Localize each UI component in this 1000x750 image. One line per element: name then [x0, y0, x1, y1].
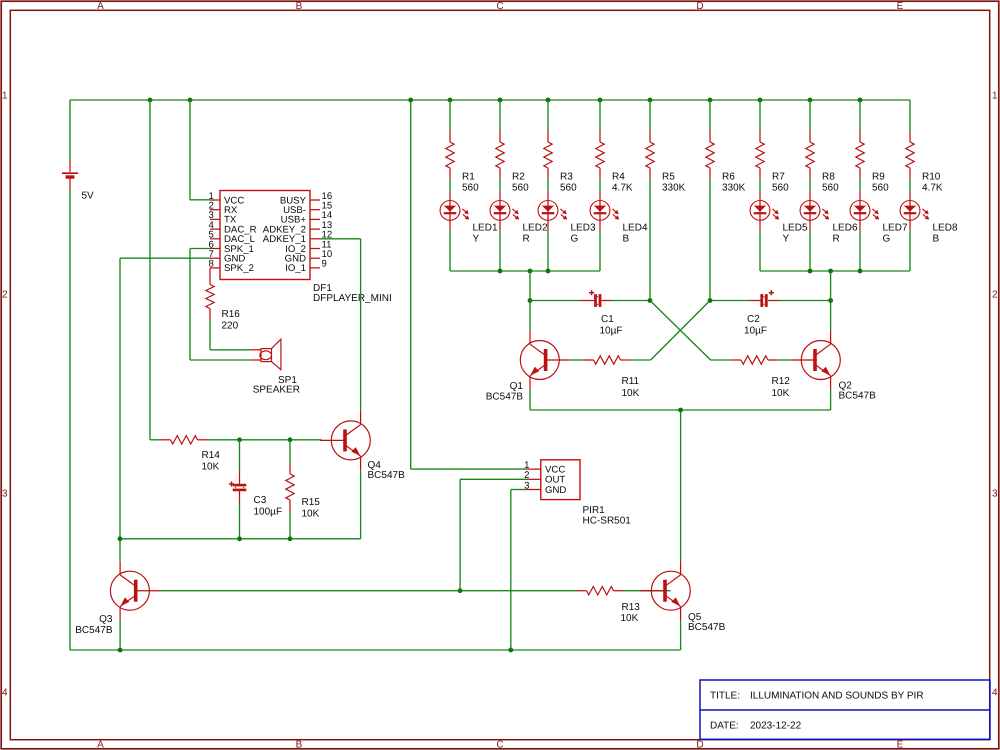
wire C3 top	[239, 440, 241, 471]
wire C2 node to Q2 collector	[830, 301, 832, 331]
resistor R4 4.7K	[599, 100, 601, 131]
svg-text:BC547B: BC547B	[486, 392, 524, 403]
wire LED5 cathode	[759, 230, 761, 271]
pin 4 DAC_R of DF1	[210, 228, 220, 230]
wire R8 to LED6	[809, 179, 811, 192]
wire multivibrator emitter rail	[530, 409, 831, 411]
wire R1 to LED1	[449, 179, 451, 192]
junction VCC bus / DF1 VCC	[188, 98, 193, 103]
junction VCC bus / PIR feed	[408, 98, 413, 103]
wire R6 to C2 node	[709, 179, 711, 301]
wire LED8 cathode	[909, 230, 911, 271]
svg-text:GND: GND	[545, 485, 566, 496]
svg-text:C1: C1	[601, 314, 614, 325]
svg-text:10K: 10K	[302, 509, 320, 520]
junction node C1 / R5 / cross wire	[648, 298, 653, 303]
transistor Q5 BC547B	[640, 590, 665, 592]
title block	[700, 680, 990, 739]
resistor R6 330K	[709, 100, 711, 131]
svg-text:1: 1	[992, 91, 998, 102]
svg-text:1: 1	[2, 91, 8, 102]
svg-text:A: A	[97, 739, 104, 750]
svg-text:R: R	[523, 234, 530, 245]
svg-text:R10: R10	[922, 172, 941, 183]
svg-text:10K: 10K	[202, 462, 220, 473]
junction cathode bus / LED7	[858, 269, 863, 274]
svg-text:SPK_2: SPK_2	[224, 263, 254, 274]
svg-text:560: 560	[512, 183, 529, 194]
svg-text:Y: Y	[783, 234, 790, 245]
svg-text:C: C	[496, 1, 503, 12]
svg-text:10K: 10K	[621, 613, 639, 624]
svg-text:BC547B: BC547B	[368, 470, 406, 481]
junction cathode bus / Q1 collector	[528, 269, 533, 274]
wire R15 top	[289, 440, 291, 463]
wire R2 to LED2	[499, 179, 501, 192]
svg-text:4: 4	[2, 688, 8, 699]
wire R11 to Q1 base	[571, 359, 583, 361]
wire LED2 cathode	[499, 230, 501, 271]
junction VCC bus / R9	[858, 98, 863, 103]
svg-text:LED1: LED1	[473, 223, 498, 234]
wire LED1-4 cathode bus	[450, 270, 600, 272]
battery BT 5V	[69, 161, 71, 172]
svg-text:R13: R13	[622, 602, 641, 613]
pin 9 IO_1 of DF1	[310, 267, 320, 269]
junction base rail / PIR OUT	[458, 588, 463, 593]
svg-text:330K: 330K	[722, 183, 746, 194]
pin 3 GND of PIR1	[526, 489, 541, 491]
wire R4 to LED4	[599, 179, 601, 192]
wire Q5 emitter to GND rail	[680, 620, 682, 650]
junction mid rail / R15	[288, 536, 293, 541]
wire Q4 emitter to mid rail	[360, 470, 362, 539]
transistor Q3 BC547B	[136, 590, 161, 592]
svg-text:LED6: LED6	[833, 223, 858, 234]
svg-text:A: A	[97, 1, 104, 12]
junction VCC bus / R7	[758, 98, 763, 103]
svg-text:R15: R15	[302, 497, 321, 508]
svg-text:3: 3	[2, 489, 8, 500]
resistor R9 560	[859, 100, 861, 131]
svg-text:LED2: LED2	[523, 223, 548, 234]
resistor R5 330K	[649, 100, 651, 131]
wire R16 to speaker	[209, 320, 211, 350]
svg-text:G: G	[883, 234, 891, 245]
svg-text:560: 560	[772, 183, 789, 194]
svg-text:2: 2	[992, 290, 998, 301]
svg-text:10K: 10K	[622, 388, 640, 399]
wire R12 to Q2 base	[779, 359, 791, 361]
junction VCC bus / R2	[498, 98, 503, 103]
wire C3 bottom	[239, 503, 241, 539]
wire PIR GND	[511, 489, 526, 491]
LED LED8 B	[909, 191, 911, 200]
pin 5 DAC_L of DF1	[210, 238, 220, 240]
transistor Q1 BC547B	[546, 359, 571, 361]
svg-text:HC-SR501: HC-SR501	[583, 515, 632, 526]
svg-text:220: 220	[222, 321, 239, 332]
pin 7 GND of DF1	[210, 257, 220, 259]
svg-text:10µF: 10µF	[600, 326, 623, 337]
sensor box PIR1 HC-SR501	[541, 460, 580, 500]
svg-text:ILLUMINATION AND SOUNDS BY PIR: ILLUMINATION AND SOUNDS BY PIR	[750, 691, 924, 702]
pin 6 SPK_1 of DF1	[210, 248, 220, 250]
pin 16 BUSY of DF1	[310, 199, 320, 201]
wire cross-couple C2 node to R11	[651, 301, 710, 361]
svg-text:R1: R1	[462, 172, 475, 183]
svg-text:C2: C2	[747, 314, 760, 325]
svg-text:8: 8	[209, 259, 214, 270]
resistor R16 220	[209, 268, 211, 285]
svg-text:9: 9	[322, 259, 327, 270]
wire R7 to LED5	[759, 179, 761, 192]
svg-text:LED4: LED4	[623, 223, 648, 234]
junction GND rail / PIR GND	[508, 648, 513, 653]
pin 8 SPK_2 of DF1	[210, 267, 220, 269]
svg-text:330K: 330K	[662, 183, 686, 194]
svg-text:D: D	[696, 1, 703, 12]
svg-text:R16: R16	[222, 309, 241, 320]
svg-text:B: B	[623, 234, 630, 245]
wire VCC top bus	[70, 99, 910, 101]
pin 12 ADKEY_1 of DF1	[310, 238, 320, 240]
pin 3 TX of DF1	[210, 218, 220, 220]
wire LED3 cathode	[547, 230, 549, 271]
transistor Q4 BC547B	[320, 439, 345, 441]
svg-text:B: B	[933, 234, 940, 245]
svg-text:R9: R9	[872, 172, 885, 183]
pin 15 USB- of DF1	[310, 209, 320, 211]
svg-text:100µF: 100µF	[254, 507, 283, 518]
LED LED1 Y	[449, 191, 451, 200]
svg-text:C3: C3	[254, 495, 267, 506]
wire R10 to LED8	[909, 179, 911, 192]
wire DF1 GND to ground net	[120, 257, 210, 259]
junction node C2 / R6 / cross wire	[708, 298, 713, 303]
wire LED4 cathode	[599, 230, 601, 271]
wire R15 bottom	[289, 511, 291, 539]
svg-text:R11: R11	[622, 376, 640, 387]
svg-text:SPEAKER: SPEAKER	[253, 385, 300, 396]
wire Q3 emitter to GND rail	[119, 620, 121, 650]
junction cathode bus / Q2 collector	[828, 269, 833, 274]
LED LED4 B	[599, 191, 601, 200]
IC U-box DF1 DFPLAYER_MINI	[220, 191, 310, 280]
junction node Q1 collector / C1	[528, 298, 533, 303]
resistor R14 10K	[150, 439, 160, 441]
junction GND rail / Q3 emitter	[118, 648, 123, 653]
wire R3 to LED3	[547, 179, 549, 192]
wire R14 to Q4 base	[208, 439, 322, 441]
LED LED7 G	[859, 191, 861, 200]
svg-text:5V: 5V	[82, 191, 95, 202]
junction mid rail / C3	[237, 536, 242, 541]
svg-text:Q3: Q3	[99, 614, 113, 625]
wire VCC to DF1 pin 1	[189, 100, 191, 200]
wire mid ground rail	[120, 538, 361, 540]
svg-text:R14: R14	[202, 450, 221, 461]
wire R5 to C1 node	[649, 179, 651, 301]
wire VCC to R14	[149, 100, 151, 440]
svg-text:E: E	[897, 1, 904, 12]
wire VCC bus to PIR VCC	[410, 100, 412, 469]
wire R9 to LED7	[859, 179, 861, 192]
svg-text:TITLE:: TITLE:	[710, 691, 740, 702]
svg-text:LED3: LED3	[571, 223, 596, 234]
junction mid rail / GND column	[118, 536, 123, 541]
LED LED2 R	[499, 191, 501, 200]
junction node C2 / Q2 collector	[828, 298, 833, 303]
svg-text:LED5: LED5	[783, 223, 808, 234]
junction VCC bus / R5	[648, 98, 653, 103]
svg-text:DATE:: DATE:	[710, 721, 739, 732]
resistor R13 10K	[576, 590, 587, 592]
wire PIR OUT	[460, 478, 526, 480]
junction R14 / R15 top	[288, 437, 293, 442]
svg-text:R2: R2	[512, 172, 525, 183]
svg-text:B: B	[296, 1, 303, 12]
wire LED7 cathode	[859, 230, 861, 271]
junction emitter rail / Q5 collector	[678, 408, 683, 413]
capacitor C2 10uF	[710, 300, 751, 302]
svg-text:10K: 10K	[772, 388, 790, 399]
svg-text:LED7: LED7	[883, 223, 908, 234]
svg-text:4: 4	[992, 688, 998, 699]
svg-text:560: 560	[822, 183, 839, 194]
transistor Q2 BC547B	[790, 359, 815, 361]
svg-text:2023-12-22: 2023-12-22	[750, 721, 802, 732]
resistor R8 560	[809, 100, 811, 131]
junction cathode bus / LED2	[498, 269, 503, 274]
LED LED3 G	[547, 191, 549, 200]
pin 2 RX of DF1	[210, 209, 220, 211]
svg-text:R3: R3	[560, 172, 573, 183]
pin 2 OUT of PIR1	[526, 478, 541, 480]
svg-text:B: B	[296, 739, 303, 750]
junction VCC bus / R8	[808, 98, 813, 103]
svg-text:10µF: 10µF	[744, 326, 767, 337]
wire C1 node to Q1 collector	[529, 301, 531, 331]
wire DF1 ADKEY_1 to Q4 collector	[320, 238, 361, 240]
pin 1 VCC of DF1	[210, 199, 220, 201]
svg-text:G: G	[571, 234, 579, 245]
resistor R11 10K	[621, 359, 632, 361]
svg-text:Y: Y	[473, 234, 480, 245]
svg-text:BC547B: BC547B	[75, 625, 113, 636]
svg-text:R8: R8	[822, 172, 835, 183]
svg-text:560: 560	[462, 183, 479, 194]
svg-text:R5: R5	[662, 172, 675, 183]
wire Q5 collector to multivibrator rail	[680, 410, 682, 561]
junction cathode bus / LED3	[546, 269, 551, 274]
pin 11 IO_2 of DF1	[310, 248, 320, 250]
wire Q1 emitter	[529, 390, 531, 410]
resistor R10 4.7K	[909, 100, 911, 131]
junction VCC bus / R14 feed	[148, 98, 153, 103]
svg-text:R: R	[833, 234, 840, 245]
pin 14 USB+ of DF1	[310, 218, 320, 220]
resistor R7 560	[759, 100, 761, 131]
capacitor C1 10uF	[530, 300, 581, 302]
wire Q2 emitter	[830, 390, 832, 410]
wire cross-couple C1 node to R12	[650, 301, 711, 361]
svg-text:BC547B: BC547B	[688, 622, 726, 633]
junction VCC bus / R6	[708, 98, 713, 103]
wire battery negative down left side	[69, 190, 71, 651]
svg-text:R12: R12	[772, 376, 791, 387]
wire battery positive	[69, 100, 71, 161]
svg-text:4.7K: 4.7K	[612, 183, 633, 194]
capacitor C3 100uF	[239, 471, 241, 484]
wire GND bottom rail	[70, 649, 681, 651]
svg-text:BC547B: BC547B	[839, 391, 877, 402]
svg-text:D: D	[696, 739, 703, 750]
svg-text:C: C	[496, 739, 503, 750]
wire R13 to Q5 base	[624, 590, 671, 592]
pin 13 ADKEY_2 of DF1	[310, 228, 320, 230]
svg-text:R4: R4	[612, 172, 625, 183]
wire Q3 base rail to R13	[161, 590, 576, 592]
svg-text:Q1: Q1	[510, 381, 524, 392]
wire DF1 SPK_1 to speaker	[190, 248, 210, 250]
svg-text:R6: R6	[722, 172, 735, 183]
svg-text:E: E	[897, 739, 904, 750]
svg-text:2: 2	[2, 290, 8, 301]
wire LED5-8 cathode bus	[760, 270, 910, 272]
svg-text:R7: R7	[772, 172, 785, 183]
resistor R3 560	[547, 100, 549, 131]
svg-text:IO_1: IO_1	[285, 263, 306, 274]
junction R14 / C3 top	[237, 437, 242, 442]
pin 1 VCC of PIR1	[526, 468, 541, 470]
svg-text:560: 560	[872, 183, 889, 194]
svg-text:4.7K: 4.7K	[922, 183, 943, 194]
resistor R2 560	[499, 100, 501, 131]
resistor R15 10K	[289, 463, 291, 474]
pin 10 GND of DF1	[310, 257, 320, 259]
junction VCC bus / R4	[598, 98, 603, 103]
LED LED6 R	[809, 191, 811, 200]
svg-text:DFPLAYER_MINI: DFPLAYER_MINI	[313, 293, 392, 304]
svg-text:LED8: LED8	[933, 223, 958, 234]
LED LED5 Y	[759, 191, 761, 200]
speaker SP1	[251, 349, 262, 351]
resistor R1 560	[449, 100, 451, 131]
resistor R12 10K	[731, 359, 742, 361]
wire LED6 cathode	[809, 230, 811, 271]
svg-text:560: 560	[560, 183, 577, 194]
junction VCC bus / R1	[448, 98, 453, 103]
junction cathode bus / LED6	[808, 269, 813, 274]
junction VCC bus / R3	[546, 98, 551, 103]
svg-text:3: 3	[992, 489, 998, 500]
wire LED1 cathode	[449, 230, 451, 271]
